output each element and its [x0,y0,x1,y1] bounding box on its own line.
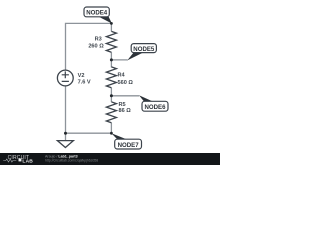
resistor R3 [106,31,116,52]
node NODE7 flag [111,133,141,149]
node NODE5 flag [127,44,156,61]
svg-text:http://circuitlab.com/c/qafkpj: http://circuitlab.com/c/qafkpjh62d58 [45,158,98,162]
svg-text:R4: R4 [118,73,126,79]
svg-text:7.6 V: 7.6 V [78,79,91,85]
wire: R5 bottom to NODE7 corner [110,123,112,134]
svg-text:260 Ω: 260 Ω [88,44,104,50]
svg-text:LAB: LAB [22,159,33,165]
watermark bar [0,153,220,165]
svg-text:NODE4: NODE4 [86,10,108,17]
svg-text:NODE6: NODE6 [145,104,167,111]
wire: NODE5 tap [111,59,127,61]
wire: R3 bottom through NODE5 junction to R4 top [110,52,112,67]
svg-text:V2: V2 [78,73,85,79]
voltage source V2 [57,70,73,86]
wire: V2 top lead up and across to resistor chain [66,23,112,70]
svg-text:560 Ω: 560 Ω [118,80,134,86]
junction bottom node dot [110,132,113,135]
ground [57,141,73,148]
svg-text:86 Ω: 86 Ω [119,108,132,114]
junction NODE5 tap dot [110,58,113,61]
junction NODE6 tap dot [110,94,113,97]
svg-text:NODE7: NODE7 [118,142,140,149]
node NODE4 flag [84,7,112,24]
svg-text:NODE5: NODE5 [133,46,155,53]
wire: V2 bottom lead down to ground junction [65,86,67,133]
wire: NODE6 tap [111,95,139,97]
junction top node dot [110,22,113,25]
wire: ground stub [65,133,67,141]
wire: bottom horizontal from ground junction to NODE7 corner [66,132,112,134]
junction ground dot [64,132,67,135]
wire: R4 bottom through NODE6 junction to R5 top [110,88,112,102]
resistor R4 [106,67,116,88]
CircuitLab logo [3,155,33,165]
resistor R5 [106,102,116,123]
wire: chain stub top junction to R3 [110,23,112,31]
svg-text:R5: R5 [119,102,126,108]
node NODE6 flag [139,95,168,111]
svg-text:R3: R3 [95,36,102,42]
